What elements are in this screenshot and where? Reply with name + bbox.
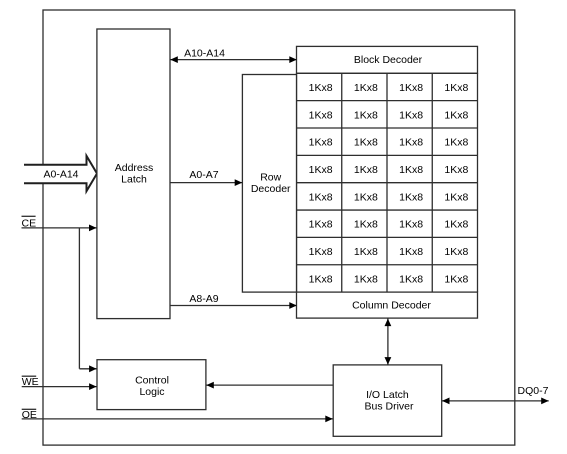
- svg-text:1Kx8: 1Kx8: [309, 219, 333, 231]
- svg-text:1Kx8: 1Kx8: [354, 109, 378, 121]
- block Block Decoder: [297, 46, 478, 73]
- outer chip border: [43, 10, 515, 445]
- svg-text:1Kx8: 1Kx8: [354, 219, 378, 231]
- signal WE label with overline: [22, 375, 37, 377]
- svg-text:1Kx8: 1Kx8: [444, 137, 468, 149]
- svg-text:1Kx8: 1Kx8: [399, 246, 423, 258]
- wire A10-A14 (double arrow): [170, 59, 297, 61]
- memory cell array grid: [297, 73, 478, 292]
- wire WE to Control Logic: [22, 386, 97, 388]
- svg-text:Logic: Logic: [139, 386, 164, 398]
- svg-text:1Kx8: 1Kx8: [399, 164, 423, 176]
- memory cell labels 1Kx8: [309, 82, 469, 285]
- wire DQ0-7 (double arrow): [442, 400, 549, 402]
- signal OE label with overline: [22, 408, 37, 410]
- block Address Latch: [97, 29, 170, 319]
- svg-text:1Kx8: 1Kx8: [399, 109, 423, 121]
- wire OE to I/O Latch: [22, 418, 334, 420]
- svg-text:1Kx8: 1Kx8: [309, 164, 333, 176]
- block arrow A0-A14: [24, 156, 97, 191]
- wire I/O Latch to Control Logic: [206, 384, 333, 386]
- svg-text:A8-A9: A8-A9: [189, 293, 218, 305]
- svg-text:1Kx8: 1Kx8: [354, 191, 378, 203]
- svg-text:I/O Latch: I/O Latch: [366, 389, 409, 401]
- svg-text:1Kx8: 1Kx8: [399, 273, 423, 285]
- svg-text:Row: Row: [260, 172, 281, 184]
- svg-text:DQ0-7: DQ0-7: [518, 385, 549, 397]
- svg-text:A0-A14: A0-A14: [43, 169, 78, 181]
- wire Column Decoder to I/O Latch (double arrow): [387, 318, 389, 365]
- svg-text:Address: Address: [115, 162, 154, 174]
- svg-text:1Kx8: 1Kx8: [444, 191, 468, 203]
- svg-text:A10-A14: A10-A14: [184, 48, 225, 60]
- svg-text:1Kx8: 1Kx8: [444, 219, 468, 231]
- block Control Logic: [97, 360, 206, 410]
- block Row Decoder: [242, 75, 296, 293]
- wire CE to Address Latch: [22, 227, 97, 229]
- svg-text:Latch: Latch: [121, 173, 147, 185]
- svg-text:1Kx8: 1Kx8: [309, 109, 333, 121]
- svg-text:1Kx8: 1Kx8: [399, 191, 423, 203]
- block Column Decoder: [297, 292, 478, 318]
- svg-text:Block Decoder: Block Decoder: [354, 54, 423, 66]
- svg-text:1Kx8: 1Kx8: [444, 164, 468, 176]
- svg-text:1Kx8: 1Kx8: [309, 137, 333, 149]
- block I/O Latch Bus Driver: [333, 365, 442, 436]
- svg-text:1Kx8: 1Kx8: [354, 273, 378, 285]
- svg-text:1Kx8: 1Kx8: [309, 191, 333, 203]
- svg-text:1Kx8: 1Kx8: [354, 137, 378, 149]
- svg-text:1Kx8: 1Kx8: [354, 164, 378, 176]
- svg-text:1Kx8: 1Kx8: [354, 82, 378, 94]
- svg-text:1Kx8: 1Kx8: [354, 246, 378, 258]
- svg-text:Column Decoder: Column Decoder: [352, 300, 431, 312]
- wire CE branch to Control Logic: [78, 228, 80, 369]
- svg-text:1Kx8: 1Kx8: [309, 273, 333, 285]
- svg-text:1Kx8: 1Kx8: [309, 246, 333, 258]
- svg-text:A0-A7: A0-A7: [189, 169, 218, 181]
- wire A8-A9: [170, 305, 297, 307]
- wire A0-A7: [170, 182, 242, 184]
- svg-text:1Kx8: 1Kx8: [399, 219, 423, 231]
- svg-text:1Kx8: 1Kx8: [399, 82, 423, 94]
- svg-text:1Kx8: 1Kx8: [444, 109, 468, 121]
- svg-text:1Kx8: 1Kx8: [399, 137, 423, 149]
- svg-text:1Kx8: 1Kx8: [444, 273, 468, 285]
- svg-text:Bus Driver: Bus Driver: [364, 400, 414, 412]
- svg-text:1Kx8: 1Kx8: [444, 246, 468, 258]
- svg-text:Decoder: Decoder: [251, 183, 291, 195]
- svg-text:1Kx8: 1Kx8: [309, 82, 333, 94]
- signal CE label with overline: [22, 215, 36, 217]
- svg-text:Control: Control: [135, 374, 169, 386]
- svg-text:1Kx8: 1Kx8: [444, 82, 468, 94]
